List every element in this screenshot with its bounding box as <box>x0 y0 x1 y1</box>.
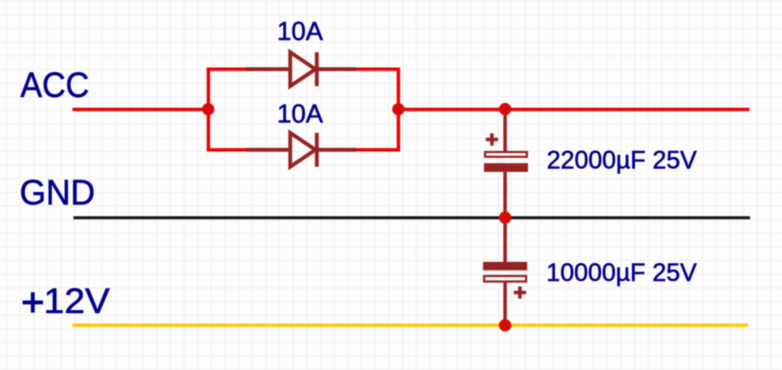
wire top branch right stub <box>355 67 400 70</box>
wire bottom branch right stub <box>355 148 400 151</box>
diode D1 <box>246 52 356 86</box>
capacitor C1 positive plate (hollow) <box>485 152 527 157</box>
capacitor C2 plus sign <box>514 286 526 298</box>
diode D2 <box>246 133 356 167</box>
svg-text:10000µF 25V: 10000µF 25V <box>546 259 697 287</box>
capacitor C2 lead top <box>503 218 507 262</box>
capacitor C1 lead bottom <box>503 172 507 218</box>
capacitor C1 negative plate (solid) <box>484 163 528 172</box>
junction node ACC-right <box>392 103 404 115</box>
svg-text:10A: 10A <box>277 16 324 46</box>
wire ACC left segment <box>72 108 208 111</box>
capacitor C2 negative plate (solid) <box>483 262 527 270</box>
junction node GND-C1C2 <box>499 211 511 223</box>
svg-text:12V: 12V <box>44 282 111 321</box>
svg-text:22000µF 25V: 22000µF 25V <box>547 147 697 175</box>
wire ACC right segment <box>398 108 749 111</box>
wire top branch left stub <box>207 67 247 70</box>
svg-text:ACC: ACC <box>20 66 89 105</box>
wire +12V <box>72 324 748 327</box>
wire parallel-box right vertical <box>397 69 400 150</box>
wire bottom branch left stub <box>207 148 247 151</box>
capacitor C2 lead bottom <box>503 282 507 326</box>
wire GND <box>73 216 750 219</box>
wire parallel-box left vertical <box>207 69 210 150</box>
junction node ACC-left <box>202 103 214 115</box>
junction node ACC-C1 <box>499 103 511 115</box>
svg-text:10A: 10A <box>277 98 324 128</box>
junction node +12V-C2 <box>499 319 511 331</box>
net label +12V plus sign <box>23 292 43 312</box>
capacitor C1 plus sign <box>486 133 498 145</box>
capacitor C2 positive plate (hollow) <box>484 276 526 282</box>
svg-text:GND: GND <box>20 174 95 213</box>
capacitor C1 lead top <box>503 109 507 152</box>
